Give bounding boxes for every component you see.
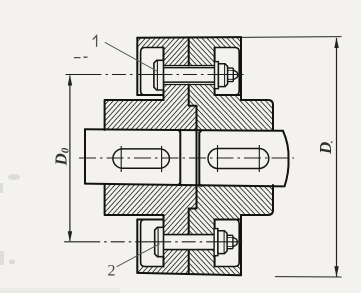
scan artifact: stray dash below label 1	[74, 56, 88, 58]
bolt 1 head	[154, 60, 164, 90]
bolt 1 nut	[218, 64, 227, 87]
left recess horizontal boundaries	[137, 95, 163, 220]
bolt 2 washer	[214, 229, 218, 256]
right shaft end face	[199, 131, 201, 187]
scan artifact: bottom edge shading	[0, 288, 120, 293]
top-right nut recess	[215, 48, 240, 96]
leader line for 1	[105, 42, 158, 71]
top extension line for D	[241, 36, 342, 39]
svg-text:2: 2	[108, 263, 116, 280]
bolt 1 washer	[215, 62, 219, 89]
bolt 2 threaded end and chamfered tip	[227, 235, 237, 248]
flange bottom outer edge	[137, 273, 241, 275]
right shaft freehand break line	[283, 131, 289, 187]
flange top outer edge	[137, 36, 241, 39]
right flange outer face	[240, 37, 242, 275]
left half-coupling section hatching	[105, 37, 197, 274]
bolt 2 nut	[218, 231, 227, 254]
left keyway slot	[113, 146, 169, 172]
svg-text:D: D	[316, 142, 335, 155]
label 1	[93, 36, 96, 47]
shaft / bore upper line	[85, 129, 283, 131]
recess outlines (bolt pockets)	[141, 48, 240, 267]
small speck after D label	[331, 141, 333, 143]
leader line for 2	[117, 244, 160, 267]
right hub outline	[241, 100, 273, 215]
left flange outer face	[136, 38, 138, 273]
scan artifact: left edge smudges	[0, 174, 20, 265]
right half-coupling section hatching	[189, 37, 273, 274]
right recess floor face segments	[214, 48, 216, 267]
bolt 1 shank	[164, 68, 215, 83]
bolt 1 threaded end and chamfered tip	[228, 68, 238, 82]
bottom extension line for D	[275, 276, 342, 278]
right keyway slot	[208, 145, 269, 172]
top-left bolt-head recess	[141, 48, 164, 96]
left flange disk face segments	[163, 48, 165, 267]
joint plane line	[189, 37, 197, 274]
bolt 1 centerline / D0 extension	[66, 74, 247, 76]
main shaft centerline	[79, 157, 294, 159]
left shaft cut end	[84, 129, 86, 183]
main outlines	[85, 37, 289, 275]
dimension D0 line	[68, 75, 73, 242]
bottom-right nut recess	[215, 220, 240, 267]
shaft / bore lower line	[85, 184, 283, 187]
left hub outline	[105, 100, 164, 215]
bolt 2 shank (fitted, no clearance)	[164, 235, 215, 250]
left shaft end face with chamfers	[178, 130, 180, 185]
right recess horizontal boundaries	[215, 95, 241, 220]
bolt 1 clearance hole lines	[164, 66, 215, 85]
bolt 2 head	[155, 227, 164, 256]
dimension D line	[334, 37, 339, 277]
bottom-left bolt-head recess	[141, 220, 164, 267]
bolt 2 centerline / D0 extension	[64, 241, 246, 243]
